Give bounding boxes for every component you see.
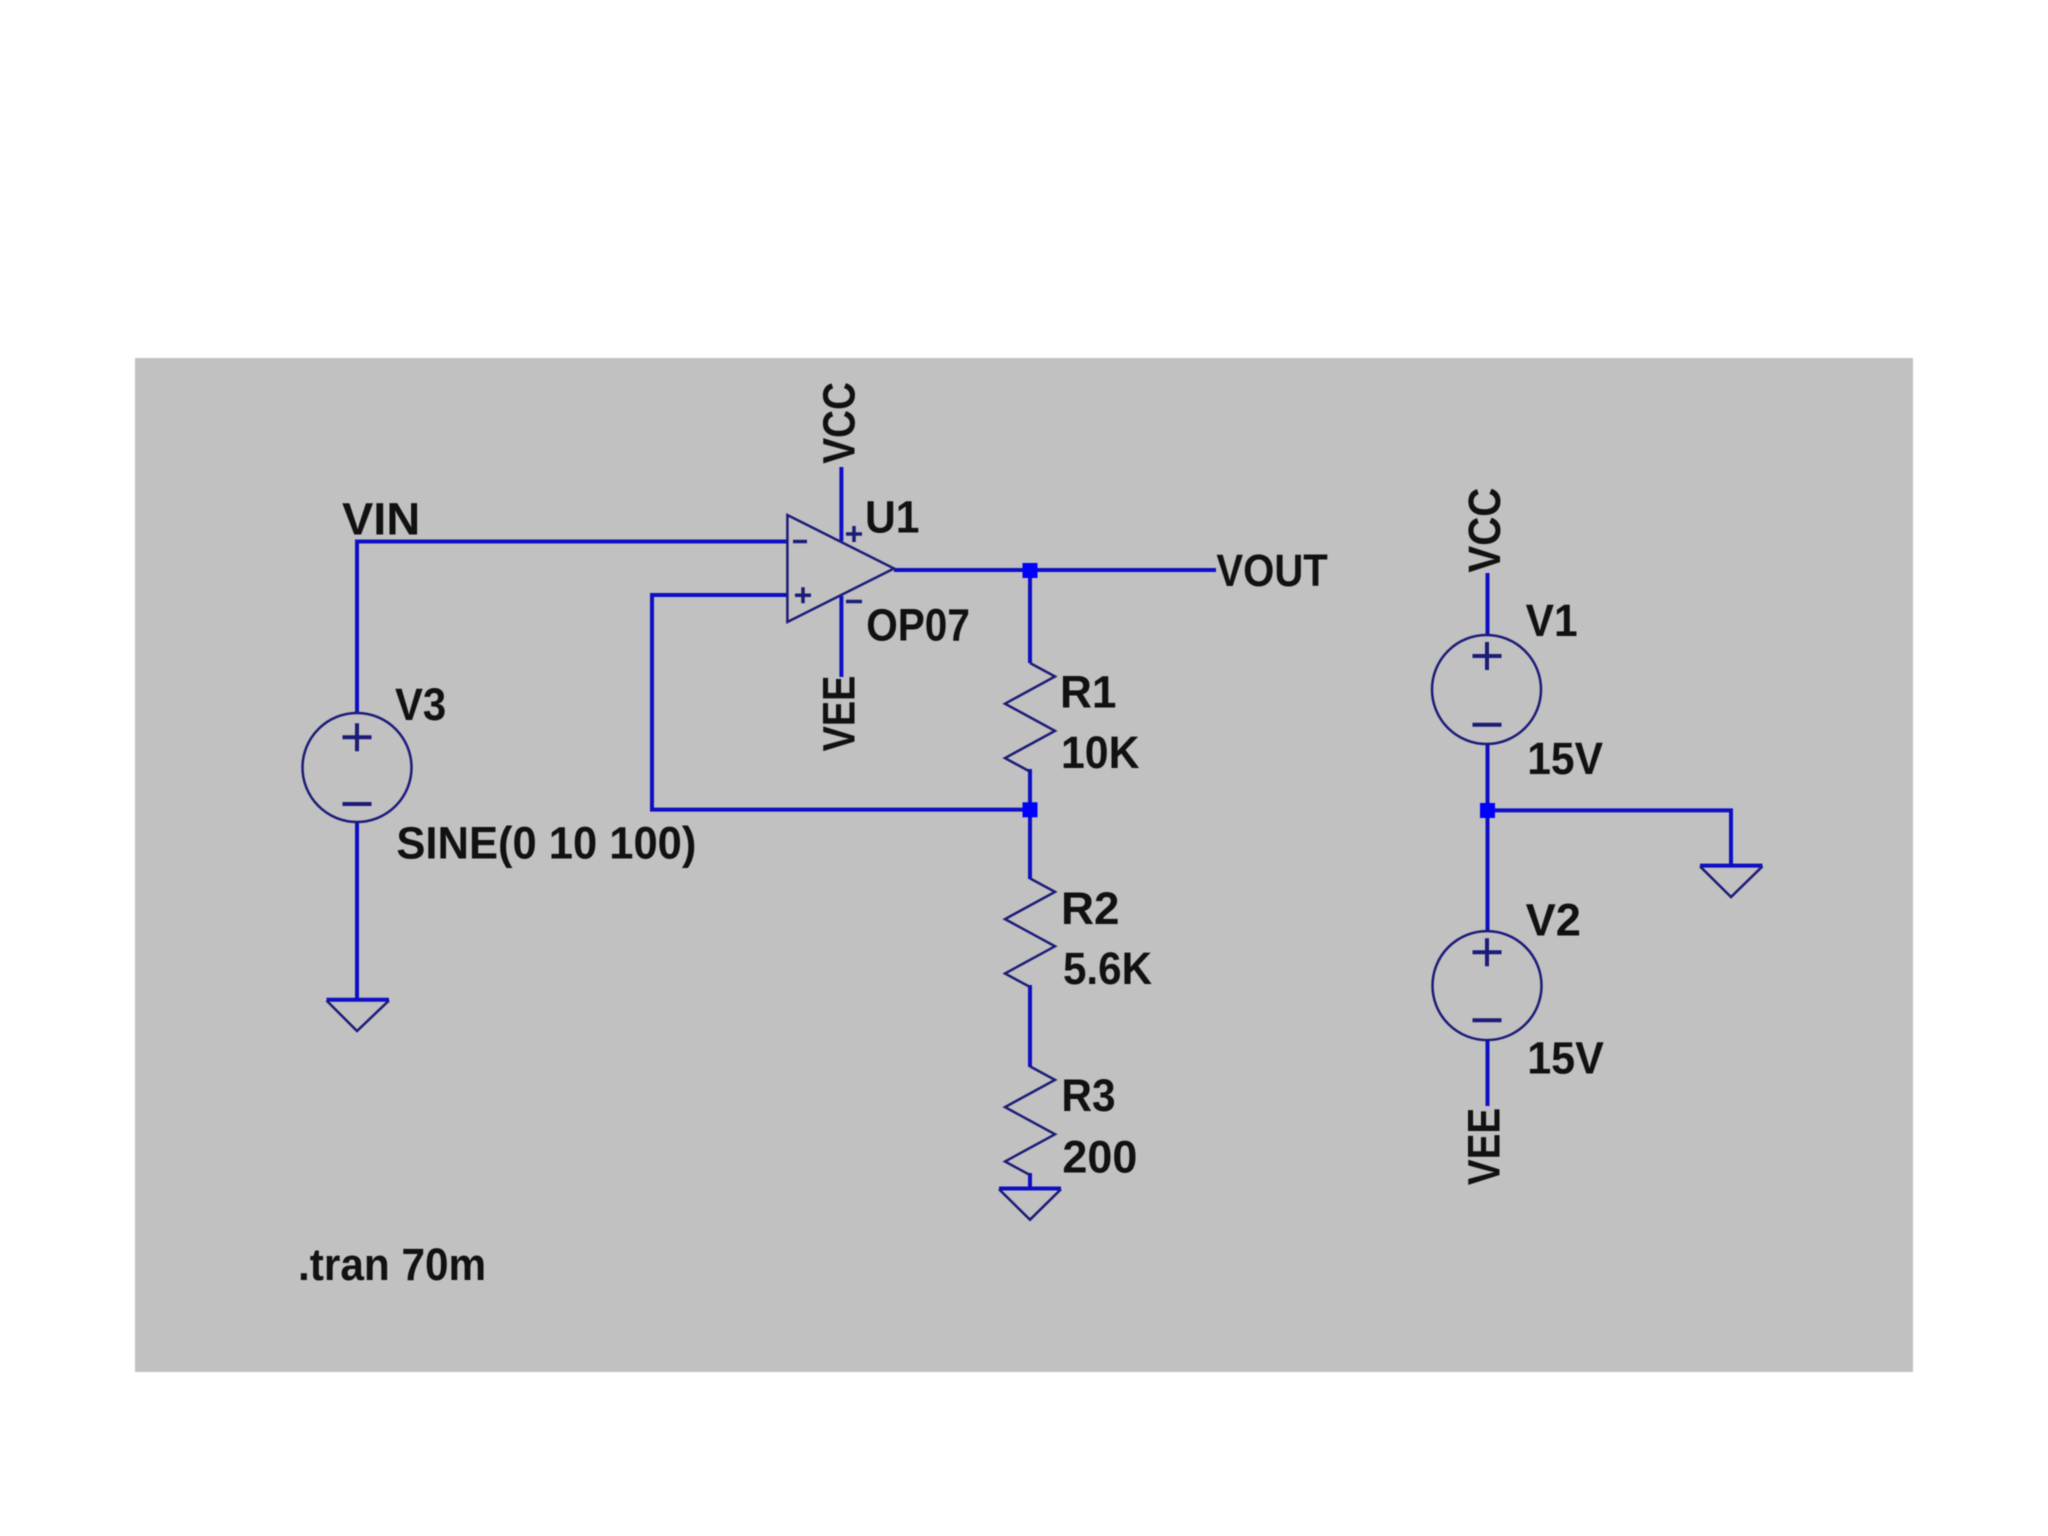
wire VIN horizontal to U1 inverting input xyxy=(357,542,788,714)
svg-text:V1: V1 xyxy=(1526,595,1578,646)
svg-text:.tran 70m: .tran 70m xyxy=(298,1239,486,1290)
svg-text:VEE: VEE xyxy=(1458,1108,1509,1185)
wire VCC label to V1 top xyxy=(1486,573,1490,635)
svg-text:15V: 15V xyxy=(1527,1033,1604,1084)
ground bar R3 xyxy=(999,1187,1061,1191)
wire R3 bottom to ground xyxy=(1028,1173,1032,1189)
wire V2 bottom to VEE label xyxy=(1486,1040,1490,1106)
resistor R1 zigzag xyxy=(1005,663,1055,772)
wire R2 bottom to R3 top xyxy=(1028,985,1032,1067)
wire R1 bottom through node to R2 top xyxy=(1028,769,1032,879)
svg-text:SINE(0 10 100): SINE(0 10 100) xyxy=(396,818,696,869)
V2 minus xyxy=(1473,1018,1502,1022)
svg-text:5.6K: 5.6K xyxy=(1063,943,1152,994)
ground bar left (V3) xyxy=(327,998,390,1002)
wire U1 VEE pin xyxy=(839,596,843,677)
U1 VEE supply minus mark xyxy=(846,600,862,604)
wire feedback: from U1 + input left, down, right to R1/R2 node xyxy=(652,595,1030,810)
svg-text:200: 200 xyxy=(1062,1132,1137,1183)
svg-text:R3: R3 xyxy=(1061,1070,1115,1121)
wire V3 bottom to ground xyxy=(355,822,359,1000)
svg-text:VIN: VIN xyxy=(342,494,420,545)
wire V1 bottom to node to V2 top xyxy=(1486,745,1490,932)
svg-text:V3: V3 xyxy=(395,679,446,730)
svg-text:10K: 10K xyxy=(1061,727,1140,778)
node R1/R2 feedback junction xyxy=(1023,802,1038,817)
V2 source circle xyxy=(1433,931,1542,1040)
wire U1 output to VOUT xyxy=(894,568,1216,572)
U1 non-inverting input plus mark xyxy=(795,587,811,603)
wire output node down to R1 xyxy=(1028,570,1032,663)
resistor R2 zigzag xyxy=(1005,878,1055,987)
V1 minus xyxy=(1473,723,1502,727)
U1 inverting input minus mark xyxy=(793,540,807,544)
svg-text:VOUT: VOUT xyxy=(1216,545,1328,596)
node VOUT junction xyxy=(1023,563,1038,578)
svg-text:VCC: VCC xyxy=(1459,488,1510,573)
svg-text:U1: U1 xyxy=(865,491,920,542)
V3 plus xyxy=(343,723,372,751)
ground V left xyxy=(327,1001,390,1032)
svg-text:V2: V2 xyxy=(1526,895,1581,946)
node V1/V2 midpoint junction xyxy=(1480,803,1495,818)
V2 plus xyxy=(1473,938,1502,966)
schematic gray canvas xyxy=(135,358,1913,1372)
wire U1 VCC pin xyxy=(839,467,843,541)
ground V right xyxy=(1700,866,1763,897)
V1 source circle xyxy=(1432,635,1541,744)
svg-text:VEE: VEE xyxy=(814,676,865,752)
ground bar right xyxy=(1700,864,1763,868)
U1 VCC supply plus mark xyxy=(846,526,862,542)
resistor R3 zigzag xyxy=(1005,1066,1055,1175)
svg-text:15V: 15V xyxy=(1527,733,1603,784)
V1 plus xyxy=(1473,642,1502,670)
svg-text:R1: R1 xyxy=(1060,667,1117,718)
svg-text:VCC: VCC xyxy=(813,382,864,464)
svg-text:R2: R2 xyxy=(1061,883,1120,934)
V3 minus xyxy=(343,802,372,806)
V3 source circle xyxy=(303,713,412,822)
svg-text:OP07: OP07 xyxy=(866,600,970,651)
wire node right to ground drop xyxy=(1488,810,1732,865)
ground V under R3 xyxy=(999,1189,1061,1220)
op-amp U1 triangle xyxy=(303,515,1763,1220)
